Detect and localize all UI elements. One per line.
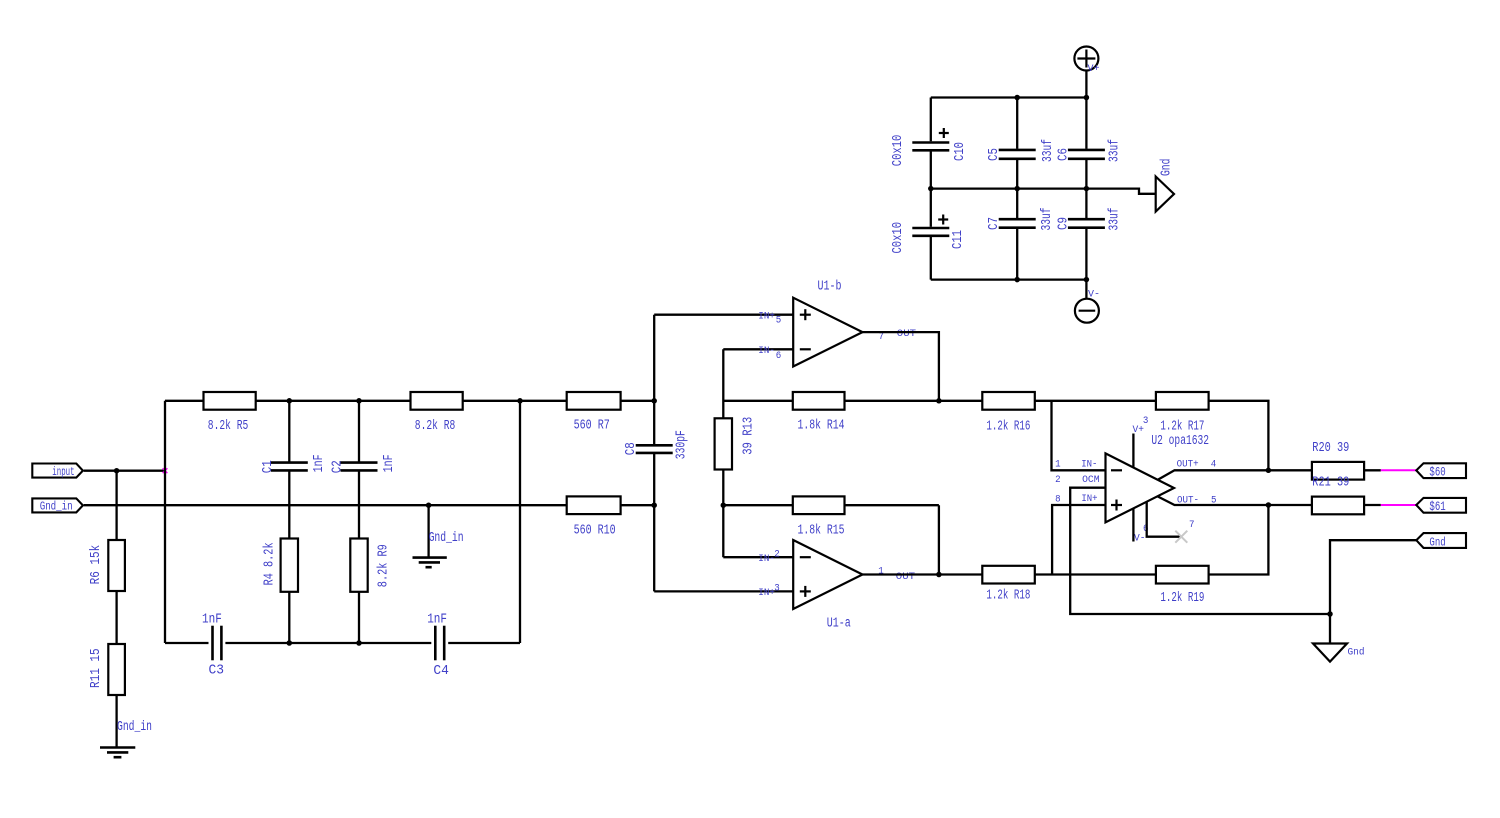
capacitor C4 [427, 612, 449, 679]
resistor R11 [89, 644, 125, 695]
op-amp U1-b [758, 279, 916, 366]
svg-text:1.8k R14: 1.8k R14 [798, 419, 845, 434]
svg-text:2: 2 [774, 550, 780, 561]
wire V+ down to rail [1085, 71, 1087, 98]
svg-text:IN+: IN+ [758, 588, 775, 599]
svg-text:8.2k R8: 8.2k R8 [415, 419, 456, 434]
svg-text:U2 opa1632: U2 opa1632 [1151, 434, 1209, 449]
junction [1266, 502, 1272, 508]
svg-text:Gnd: Gnd [1429, 535, 1445, 549]
svg-text:33uf: 33uf [1041, 139, 1056, 162]
svg-text:C2: C2 [331, 460, 346, 473]
resistor R6 [89, 471, 125, 591]
resistor R10 [567, 496, 655, 538]
wire top rail [165, 400, 520, 402]
svg-text:1nF: 1nF [427, 612, 447, 627]
wire IN- drop [1052, 401, 1106, 471]
wire [723, 348, 793, 350]
wire [723, 556, 793, 558]
wire IN+ drop [1052, 505, 1105, 575]
junction [356, 398, 362, 404]
svg-text:OUT+: OUT+ [1177, 459, 1199, 470]
wire [225, 642, 431, 644]
svg-text:1nF: 1nF [312, 454, 327, 472]
svg-text:1.2k R17: 1.2k R17 [1160, 419, 1204, 434]
wire bottom rail [165, 642, 209, 644]
resistor R5 [204, 392, 256, 434]
svg-text:560 R7: 560 R7 [574, 419, 610, 434]
flag $60 [1416, 463, 1466, 479]
svg-text:2: 2 [1055, 475, 1061, 486]
svg-text:33uf: 33uf [1108, 208, 1123, 231]
resistor R8 [411, 392, 463, 434]
capacitor C11 [891, 189, 966, 280]
capacitor C9 [1056, 189, 1122, 280]
svg-text:5: 5 [776, 315, 782, 326]
wire [1209, 401, 1269, 471]
wire [938, 505, 940, 574]
junction [1084, 95, 1090, 101]
capacitor C1 [261, 401, 327, 539]
junction [651, 398, 657, 404]
svg-text:R21 39: R21 39 [1312, 476, 1349, 491]
wire [1364, 469, 1381, 471]
junction [721, 502, 727, 508]
svg-text:Gnd_in: Gnd_in [117, 720, 152, 735]
svg-text:1.2k R19: 1.2k R19 [1160, 591, 1204, 606]
wire [654, 590, 793, 592]
wire filter right vertical [519, 401, 521, 643]
svg-text:C11: C11 [951, 230, 966, 249]
svg-text:1.8k R15: 1.8k R15 [798, 523, 845, 538]
resistor R4 [263, 539, 299, 644]
wire [1035, 400, 1156, 402]
svg-text:1: 1 [1055, 460, 1061, 471]
svg-text:7: 7 [879, 332, 885, 343]
svg-text:6: 6 [776, 351, 782, 362]
wire top power rail [931, 96, 1087, 98]
svg-text:IN-: IN- [758, 554, 775, 565]
flag input [32, 464, 83, 479]
wire OUT- [1158, 497, 1312, 506]
wire U2 V+ pin [1132, 434, 1134, 468]
svg-text:7: 7 [1189, 520, 1195, 531]
junction [287, 398, 293, 404]
svg-text:4: 4 [1211, 459, 1217, 470]
wire input vertical [164, 401, 166, 643]
resistor R16 [982, 392, 1035, 434]
junction [1014, 186, 1020, 192]
wire [1035, 573, 1156, 575]
svg-text:IN+: IN+ [758, 311, 775, 322]
ground Gnd (supply arrow) [1156, 159, 1175, 212]
power supply symbol V- [1075, 280, 1100, 323]
capacitor C2 [331, 401, 397, 539]
junction [928, 186, 934, 192]
svg-text:39 R13: 39 R13 [741, 417, 756, 455]
capacitor C8 [624, 315, 689, 592]
junction [1327, 611, 1333, 617]
junction [1266, 468, 1272, 474]
svg-text:R6 15k: R6 15k [89, 545, 104, 585]
wire (magenta net $61) [1381, 504, 1417, 506]
svg-text:C5: C5 [987, 148, 1002, 161]
wire [1209, 505, 1269, 575]
capacitor C10 [891, 98, 968, 189]
svg-text:C3: C3 [209, 663, 225, 678]
svg-text:C8: C8 [624, 442, 639, 455]
resistor R20 [1312, 441, 1364, 480]
flag $61 [1416, 498, 1466, 514]
svg-text:1nF: 1nF [202, 612, 222, 627]
resistor R17 [1156, 392, 1209, 434]
svg-text:input: input [52, 466, 74, 479]
junction [114, 468, 120, 474]
wire [1364, 504, 1381, 506]
flag Gnd_in [32, 498, 83, 513]
wire [939, 573, 982, 575]
capacitor C5 [987, 98, 1056, 189]
svg-text:330pF: 330pF [674, 430, 689, 459]
junction [517, 398, 523, 404]
flag Gnd [1416, 533, 1466, 549]
ground Gnd (bottom right) [1313, 644, 1365, 662]
svg-text:C9: C9 [1056, 217, 1071, 230]
svg-text:C7: C7 [987, 217, 1002, 230]
wire OUT+ [1158, 470, 1312, 480]
capacitor C7 [987, 189, 1055, 280]
svg-text:R4 8.2k: R4 8.2k [263, 542, 278, 585]
resistor R7 [520, 392, 654, 434]
svg-text:U1-a: U1-a [827, 617, 851, 632]
resistor R19 [1156, 566, 1209, 606]
op-amp U1-a [758, 540, 915, 632]
ground Gnd_in (filter) [413, 505, 464, 567]
svg-text:560 R10: 560 R10 [574, 523, 616, 538]
op-amp U2 opa1632 [1055, 416, 1216, 544]
svg-text:3: 3 [1143, 416, 1149, 427]
svg-text:1.2k R16: 1.2k R16 [986, 419, 1030, 434]
wire [115, 695, 117, 747]
wire U1-a OUT [863, 573, 939, 575]
svg-text:C0x10: C0x10 [891, 135, 906, 167]
capacitor C3 [202, 612, 224, 678]
svg-text:33uf: 33uf [1108, 139, 1123, 162]
wire OCM to ground [1070, 488, 1330, 614]
wire Gnd flag [1330, 540, 1417, 643]
svg-text:U1-b: U1-b [818, 279, 842, 294]
wire input [84, 470, 165, 472]
junction [287, 640, 293, 646]
wire U1-b OUT [863, 332, 939, 401]
svg-text:Gnd: Gnd [1159, 159, 1174, 176]
capacitor C6 [1056, 98, 1122, 189]
resistor R21 [1312, 476, 1364, 515]
svg-text:$60: $60 [1429, 464, 1445, 479]
svg-text:C10: C10 [953, 142, 968, 161]
wire [115, 591, 117, 644]
ground Gnd_in (input divider) [100, 720, 152, 757]
svg-text:V+: V+ [1088, 64, 1100, 75]
svg-text:1nF: 1nF [382, 454, 397, 472]
svg-text:C1: C1 [261, 460, 276, 473]
svg-text:C4: C4 [433, 664, 449, 679]
svg-text:IN+: IN+ [1081, 494, 1097, 505]
wire middle power rail [931, 189, 1156, 194]
node input (magenta marker) [163, 468, 168, 473]
junction [651, 502, 657, 508]
svg-text:C6: C6 [1056, 148, 1071, 161]
junction [1084, 277, 1090, 283]
resistor R9 [350, 539, 391, 644]
svg-text:Gnd_in: Gnd_in [40, 501, 73, 514]
svg-text:33uf: 33uf [1040, 208, 1055, 231]
resistor R14 [723, 392, 939, 434]
wire [654, 314, 793, 316]
svg-text:IN-: IN- [1081, 460, 1097, 471]
resistor R13 [715, 349, 757, 557]
junction [936, 572, 942, 578]
svg-text:R20 39: R20 39 [1312, 441, 1349, 456]
pin 7 no-connect [1147, 502, 1188, 543]
wire U2 V- pin [1132, 508, 1134, 541]
svg-text:C0x10: C0x10 [891, 222, 906, 254]
wire [448, 642, 520, 644]
svg-text:R11 15: R11 15 [89, 648, 104, 688]
svg-text:8.2k R5: 8.2k R5 [208, 419, 249, 434]
resistor R15 [723, 496, 939, 538]
svg-text:OUT: OUT [897, 329, 916, 340]
junction [1014, 277, 1020, 283]
junction [1084, 186, 1090, 192]
junction [1014, 95, 1020, 101]
svg-text:OCM: OCM [1082, 475, 1100, 486]
svg-text:1.2k R18: 1.2k R18 [986, 588, 1030, 603]
svg-text:V-: V- [1088, 290, 1100, 301]
svg-text:$61: $61 [1429, 499, 1445, 514]
svg-text:V-: V- [1134, 533, 1146, 544]
resistor R18 [982, 566, 1035, 604]
power supply symbol V+ [1074, 47, 1099, 76]
svg-text:IN-: IN- [758, 346, 775, 357]
wire Gnd_in rail [84, 504, 567, 506]
svg-text:Gnd: Gnd [1348, 647, 1365, 659]
wire bottom power rail [931, 278, 1087, 280]
junction [356, 640, 362, 646]
junction [936, 398, 942, 404]
wire (magenta net $60) [1381, 469, 1417, 471]
svg-text:Gnd_in: Gnd_in [429, 531, 464, 546]
junction [426, 502, 432, 508]
svg-text:8: 8 [1055, 495, 1061, 506]
wire [939, 400, 982, 402]
svg-text:8.2k R9: 8.2k R9 [377, 544, 392, 587]
svg-text:3: 3 [774, 584, 780, 595]
